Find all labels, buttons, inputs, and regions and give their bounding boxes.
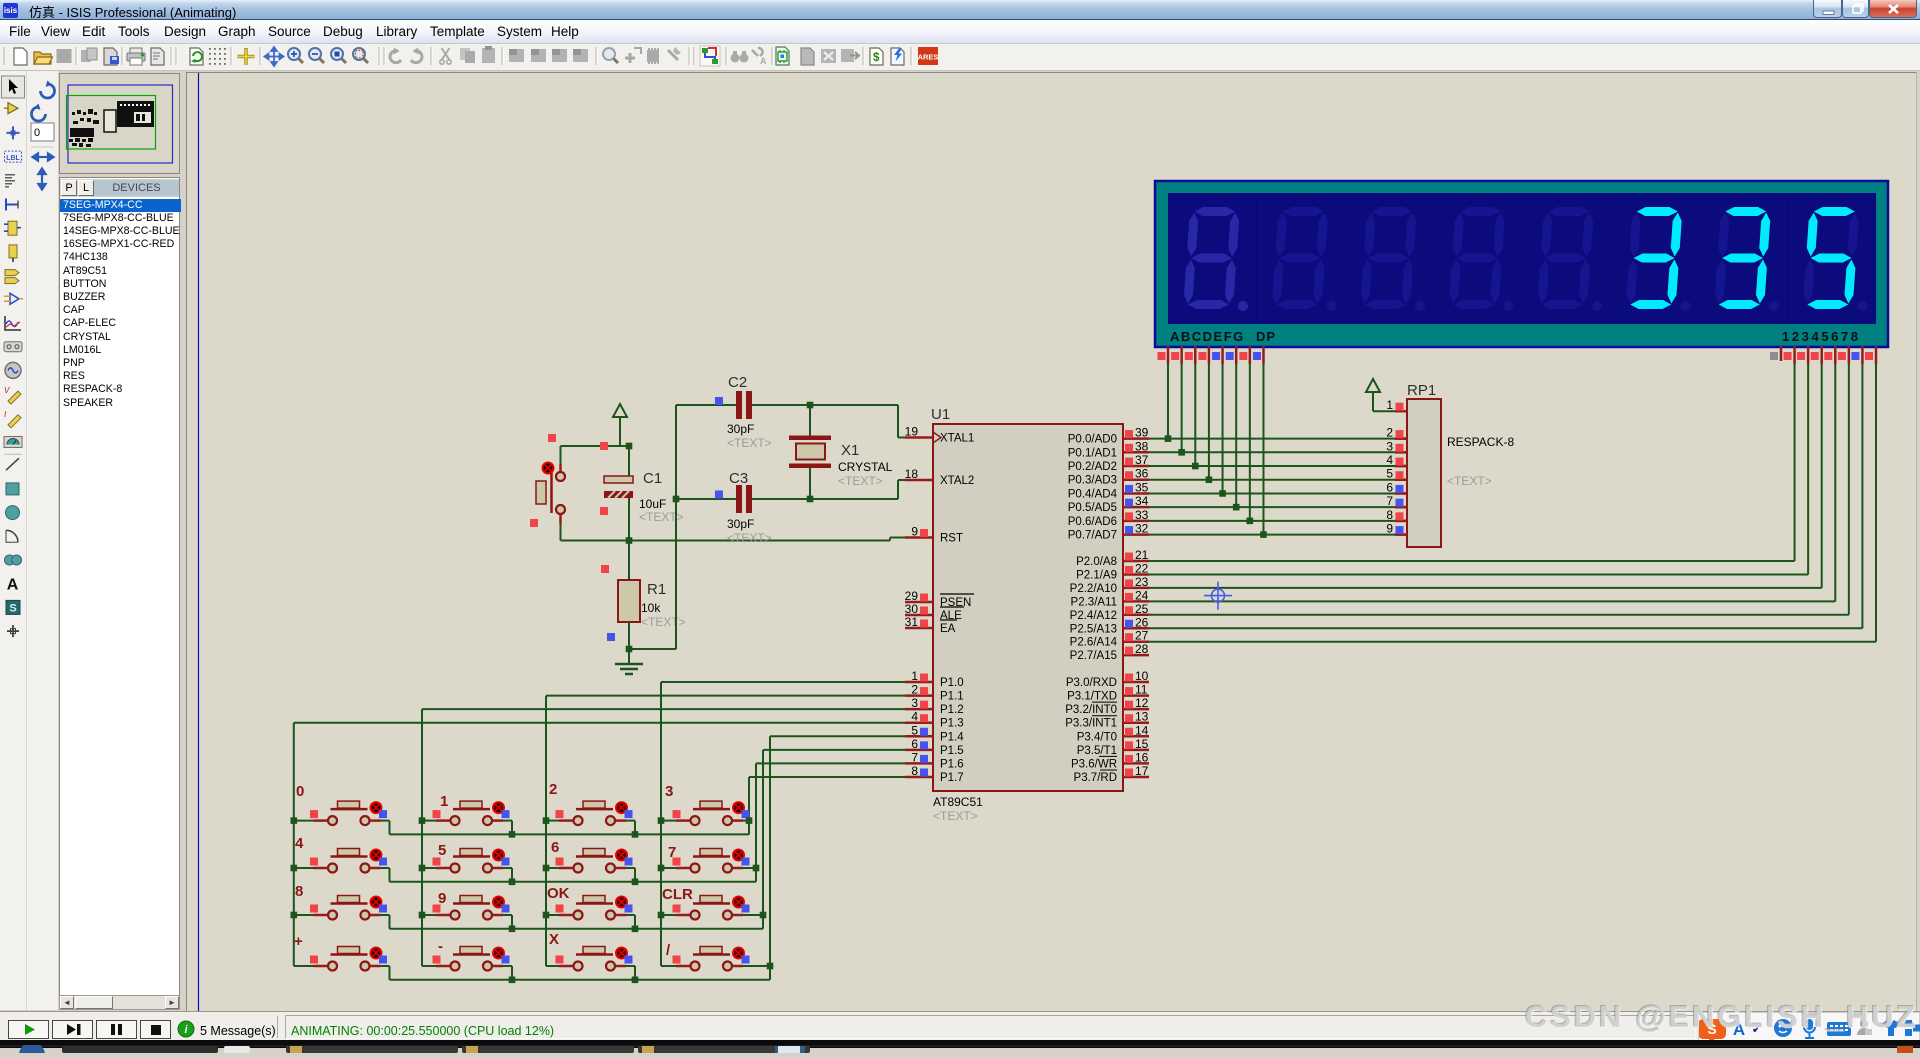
svg-text:ABCDEFG: ABCDEFG bbox=[1170, 329, 1245, 344]
svg-text:34: 34 bbox=[1135, 494, 1149, 508]
svg-text:<TEXT>: <TEXT> bbox=[838, 474, 883, 488]
svg-text:27: 27 bbox=[1135, 629, 1149, 643]
svg-text:ARES: ARES bbox=[918, 53, 939, 62]
svg-text:P3.7/RD: P3.7/RD bbox=[1074, 772, 1117, 784]
svg-text:23: 23 bbox=[1135, 575, 1149, 589]
svg-text:<TEXT>: <TEXT> bbox=[641, 615, 686, 629]
svg-text:39: 39 bbox=[1135, 426, 1149, 440]
svg-text:P0.5/AD5: P0.5/AD5 bbox=[1068, 502, 1117, 514]
svg-text:V: V bbox=[4, 386, 10, 395]
svg-text:10k: 10k bbox=[641, 601, 661, 615]
svg-text:P3.4/T0: P3.4/T0 bbox=[1077, 731, 1117, 743]
svg-text:1: 1 bbox=[911, 669, 918, 683]
svg-text:P2.6/A14: P2.6/A14 bbox=[1070, 637, 1118, 649]
svg-text:36: 36 bbox=[1135, 467, 1149, 481]
svg-text:17: 17 bbox=[1135, 764, 1149, 778]
svg-text:P3.5/T1: P3.5/T1 bbox=[1077, 745, 1117, 757]
svg-text:P3.3/INT1: P3.3/INT1 bbox=[1065, 718, 1117, 730]
svg-text:RST: RST bbox=[940, 533, 963, 545]
svg-text:P2.1/A9: P2.1/A9 bbox=[1076, 569, 1117, 581]
svg-text:<TEXT>: <TEXT> bbox=[727, 531, 772, 545]
svg-text:4: 4 bbox=[911, 710, 918, 724]
svg-text:C1: C1 bbox=[643, 470, 662, 487]
svg-text:P0.0/AD0: P0.0/AD0 bbox=[1068, 434, 1117, 446]
svg-text:12: 12 bbox=[1135, 696, 1149, 710]
svg-text:LBL: LBL bbox=[6, 155, 20, 162]
svg-text:P3.2/INT0: P3.2/INT0 bbox=[1065, 704, 1117, 716]
svg-text:P3.1/TXD: P3.1/TXD bbox=[1067, 691, 1117, 703]
svg-text:2: 2 bbox=[1386, 426, 1393, 440]
svg-text:S: S bbox=[9, 602, 16, 614]
svg-text:A: A bbox=[760, 56, 767, 66]
svg-text:A: A bbox=[7, 577, 19, 594]
svg-text:30pF: 30pF bbox=[727, 422, 754, 436]
svg-text:35: 35 bbox=[1135, 480, 1149, 494]
svg-text:14: 14 bbox=[1135, 723, 1149, 737]
svg-text:8: 8 bbox=[1386, 508, 1393, 522]
svg-text:0: 0 bbox=[296, 783, 304, 800]
svg-text:3: 3 bbox=[665, 783, 673, 800]
svg-text:7: 7 bbox=[668, 844, 676, 861]
svg-text:7: 7 bbox=[911, 750, 918, 764]
svg-text:P1.3: P1.3 bbox=[940, 718, 964, 730]
svg-text:$: $ bbox=[873, 52, 880, 64]
svg-text:22: 22 bbox=[1135, 561, 1149, 575]
svg-text:5: 5 bbox=[1386, 467, 1393, 481]
svg-text:5: 5 bbox=[438, 842, 446, 859]
svg-text:1: 1 bbox=[1386, 398, 1393, 412]
svg-text:X1: X1 bbox=[841, 442, 859, 459]
svg-text:P0.6/AD6: P0.6/AD6 bbox=[1068, 516, 1117, 528]
svg-text:U1: U1 bbox=[931, 406, 950, 423]
svg-text:0: 0 bbox=[34, 127, 40, 139]
svg-text:9: 9 bbox=[1386, 522, 1393, 536]
svg-text:CRYSTAL: CRYSTAL bbox=[838, 460, 893, 474]
svg-text:6: 6 bbox=[911, 737, 918, 751]
svg-text:RP1: RP1 bbox=[1407, 382, 1436, 399]
svg-text:C2: C2 bbox=[728, 374, 747, 391]
svg-text:2: 2 bbox=[911, 683, 918, 697]
svg-text:EA: EA bbox=[940, 623, 956, 635]
svg-text:30: 30 bbox=[905, 602, 919, 616]
svg-text:P1.1: P1.1 bbox=[940, 691, 964, 703]
svg-text:P2.7/A15: P2.7/A15 bbox=[1070, 650, 1117, 662]
svg-text:25: 25 bbox=[1135, 602, 1149, 616]
svg-text:31: 31 bbox=[905, 615, 919, 629]
svg-text:2: 2 bbox=[549, 781, 557, 798]
svg-text:X: X bbox=[549, 931, 559, 948]
svg-text:16: 16 bbox=[1135, 750, 1149, 764]
svg-text:CLR: CLR bbox=[662, 886, 693, 903]
svg-text:6: 6 bbox=[551, 839, 559, 856]
svg-text:P2.3/A11: P2.3/A11 bbox=[1071, 596, 1117, 608]
svg-text:P2.2/A10: P2.2/A10 bbox=[1070, 583, 1117, 595]
svg-text:10: 10 bbox=[1135, 669, 1149, 683]
svg-text:13: 13 bbox=[1135, 710, 1149, 724]
svg-text:21: 21 bbox=[1135, 548, 1149, 562]
svg-text:/: / bbox=[666, 942, 671, 959]
svg-text:<TEXT>: <TEXT> bbox=[1447, 474, 1492, 488]
svg-text:P1.5: P1.5 bbox=[940, 745, 964, 757]
svg-text:AT89C51: AT89C51 bbox=[933, 795, 983, 809]
svg-text:8: 8 bbox=[911, 764, 918, 778]
svg-text:24: 24 bbox=[1135, 588, 1149, 602]
svg-text:P3.0/RXD: P3.0/RXD bbox=[1066, 677, 1117, 689]
svg-text:18: 18 bbox=[905, 467, 919, 481]
svg-text:P0.7/AD7: P0.7/AD7 bbox=[1068, 530, 1117, 542]
svg-text:10uF: 10uF bbox=[639, 497, 666, 511]
svg-text:P2.4/A12: P2.4/A12 bbox=[1070, 610, 1117, 622]
svg-text:32: 32 bbox=[1135, 522, 1149, 536]
svg-text:6: 6 bbox=[1386, 480, 1393, 494]
svg-text:P1.0: P1.0 bbox=[940, 677, 964, 689]
svg-text:12345678: 12345678 bbox=[1782, 329, 1861, 344]
svg-text:28: 28 bbox=[1135, 642, 1149, 656]
svg-text:XTAL1: XTAL1 bbox=[940, 433, 974, 445]
svg-text:RESPACK-8: RESPACK-8 bbox=[1447, 435, 1514, 449]
svg-text:DP: DP bbox=[1256, 329, 1276, 344]
svg-text:9: 9 bbox=[438, 890, 446, 907]
svg-text:P1.4: P1.4 bbox=[940, 731, 964, 743]
svg-text:I: I bbox=[4, 410, 7, 419]
svg-text:11: 11 bbox=[1135, 683, 1148, 697]
svg-text:38: 38 bbox=[1135, 439, 1149, 453]
svg-text:P2.5/A13: P2.5/A13 bbox=[1070, 623, 1117, 635]
svg-text:15: 15 bbox=[1135, 737, 1149, 751]
svg-text:37: 37 bbox=[1135, 453, 1149, 467]
svg-text:7: 7 bbox=[1386, 494, 1393, 508]
svg-text:4: 4 bbox=[1386, 453, 1393, 467]
svg-text:9: 9 bbox=[911, 525, 918, 539]
svg-text:1: 1 bbox=[440, 793, 448, 810]
svg-text:-: - bbox=[438, 938, 443, 955]
svg-text:19: 19 bbox=[905, 425, 919, 439]
svg-text:P0.2/AD2: P0.2/AD2 bbox=[1068, 461, 1117, 473]
svg-text:<TEXT>: <TEXT> bbox=[933, 809, 978, 823]
svg-text:C3: C3 bbox=[729, 470, 748, 487]
svg-text:P0.1/AD1: P0.1/AD1 bbox=[1068, 447, 1117, 459]
svg-text:R1: R1 bbox=[647, 581, 666, 598]
svg-text:+: + bbox=[294, 933, 303, 950]
svg-text:30pF: 30pF bbox=[727, 517, 754, 531]
svg-text:<TEXT>: <TEXT> bbox=[727, 436, 772, 450]
svg-text:4: 4 bbox=[295, 835, 304, 852]
svg-text:29: 29 bbox=[905, 589, 919, 603]
svg-text:P3.6/WR: P3.6/WR bbox=[1071, 758, 1117, 770]
svg-text:P2.0/A8: P2.0/A8 bbox=[1076, 556, 1117, 568]
svg-text:XTAL2: XTAL2 bbox=[940, 475, 974, 487]
svg-text:8: 8 bbox=[295, 883, 303, 900]
svg-text:OK: OK bbox=[547, 885, 570, 902]
svg-text:26: 26 bbox=[1135, 615, 1149, 629]
svg-text:P1.6: P1.6 bbox=[940, 758, 964, 770]
svg-text:3: 3 bbox=[1386, 439, 1393, 453]
svg-text:33: 33 bbox=[1135, 508, 1149, 522]
svg-text:P0.3/AD3: P0.3/AD3 bbox=[1068, 475, 1117, 487]
svg-text:3: 3 bbox=[911, 696, 918, 710]
svg-text:P0.4/AD4: P0.4/AD4 bbox=[1068, 488, 1118, 500]
svg-text:P1.7: P1.7 bbox=[940, 772, 964, 784]
svg-text:5: 5 bbox=[911, 723, 918, 737]
svg-text:P1.2: P1.2 bbox=[940, 704, 964, 716]
